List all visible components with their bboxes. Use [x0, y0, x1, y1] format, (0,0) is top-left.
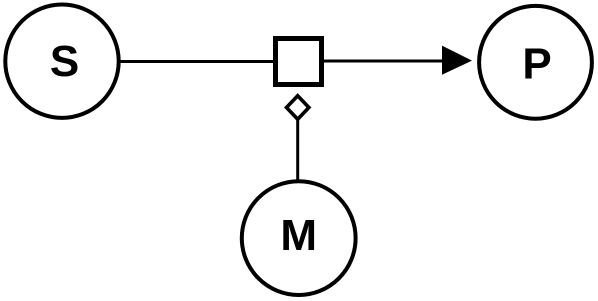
node S (circle) [5, 5, 118, 118]
svg-text:S: S [50, 37, 79, 86]
arrow wire square to P [324, 60, 446, 63]
wire diamond to M [296, 119, 299, 182]
diamond connector [287, 96, 309, 120]
svg-text:M: M [280, 211, 317, 260]
arrowhead [442, 46, 472, 75]
node M (circle) [242, 181, 356, 295]
node P (circle) [479, 6, 592, 119]
wire S to square [119, 60, 274, 63]
svg-text:P: P [522, 40, 551, 89]
square junction box [276, 39, 322, 85]
